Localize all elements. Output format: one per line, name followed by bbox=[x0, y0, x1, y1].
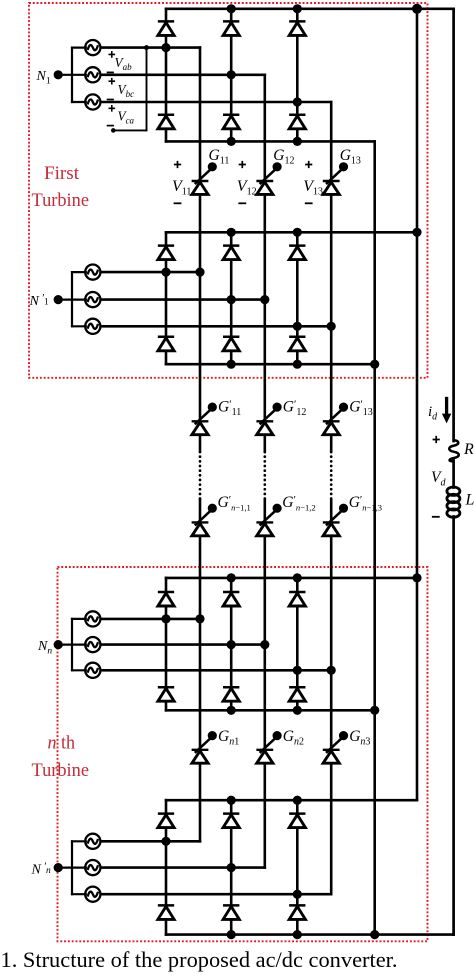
thyristor G'n-1,2 bbox=[257, 504, 282, 536]
label Vca bbox=[109, 105, 116, 112]
node: bridge Bn phase 1 junction bbox=[161, 837, 170, 846]
wire: stub to source Vc1 bbox=[72, 101, 86, 103]
AC source Vc1p bbox=[85, 319, 100, 334]
diode bridge Bn lower leg 3 bbox=[289, 905, 305, 919]
diode bridge An lower leg 3 bbox=[289, 687, 305, 701]
diode bridge Bn upper leg 1 bbox=[158, 814, 174, 828]
inductor L bbox=[447, 487, 460, 495]
wire: bridge An leg 2 bbox=[230, 578, 233, 592]
thyristor G'n-1,1 bbox=[192, 504, 217, 536]
wire: bridge A1 leg 2 bbox=[230, 9, 233, 22]
thyristor G'11 bbox=[192, 403, 217, 435]
node: bridge A1 bus junctions bbox=[227, 4, 236, 13]
thyristor V11 bbox=[192, 162, 217, 194]
wire: stub to source Vb1p bbox=[72, 299, 86, 301]
node: bridge B1 phase 3 junction bbox=[293, 322, 302, 331]
wire: bridge B1 leg 2 bbox=[230, 232, 233, 245]
wire: bridge An phase row 3 bbox=[100, 669, 331, 672]
node: bridge A1 phase 2 junction bbox=[227, 70, 236, 79]
svg-text:First: First bbox=[44, 163, 80, 184]
diode bridge A1 upper leg 1 bbox=[158, 21, 174, 35]
wire: right outer load rail upper bbox=[452, 9, 455, 441]
wire: stub to source Van bbox=[72, 618, 86, 620]
AC source Van bbox=[85, 611, 100, 626]
wire: bridge Bn left bus bbox=[71, 841, 73, 894]
thyristor V13 bbox=[323, 162, 348, 194]
diode bridge A1 upper leg 3 bbox=[289, 21, 305, 35]
wire: bridge Bn bottom bus bbox=[166, 933, 454, 936]
label Vab bbox=[109, 51, 116, 58]
wire: bridge B1 top bus bbox=[166, 231, 417, 234]
wire: thyristor column 3 segments bbox=[330, 102, 333, 181]
label V12 plus bbox=[239, 161, 246, 168]
node: bridge B1 top bus to inner rail bbox=[412, 228, 421, 237]
wire: bridge A1 phase row 3 bbox=[100, 101, 331, 104]
node: bridge Bn phase 3 junction bbox=[293, 890, 302, 899]
wire: bridge An phase row 2 bbox=[100, 643, 265, 646]
AC source Vanp bbox=[85, 834, 100, 849]
node: bridge Bn bus junctions bbox=[227, 796, 236, 805]
node: bridge An phase 2 junction bbox=[227, 640, 236, 649]
node: bridge An phase 3 junction bbox=[293, 666, 302, 675]
diode bridge A1 lower leg 3 bbox=[289, 115, 305, 129]
label V13 plus bbox=[305, 161, 312, 168]
label V11 minus bbox=[174, 202, 182, 204]
label V11 plus bbox=[174, 161, 181, 168]
wire: bridge A1 phase row 1 bbox=[100, 46, 200, 49]
wire: series vertical link bbox=[373, 141, 376, 934]
node: sense tap on phase a bbox=[144, 45, 149, 50]
node: bridge Bn phase 2 junction bbox=[227, 863, 236, 872]
wire: right outer load rail middle bbox=[452, 461, 455, 488]
wire: right inner rail bbox=[416, 9, 419, 800]
diode bridge An upper leg 2 bbox=[223, 592, 239, 606]
wire: stub to source Vb1 bbox=[72, 74, 86, 76]
wire: dotted column 3 bbox=[330, 452, 333, 499]
wire: Vca sense line bbox=[146, 48, 148, 131]
wire: stub to source Vbn bbox=[72, 643, 86, 645]
AC source Vcnp bbox=[85, 887, 100, 902]
wire: bridge B1 bottom bus bbox=[166, 363, 375, 366]
node N1 bbox=[58, 74, 72, 76]
AC source Va1 bbox=[85, 40, 100, 55]
First Turbine dotted box bbox=[29, 3, 428, 378]
thyristor V12 bbox=[257, 162, 282, 194]
current arrow id bbox=[445, 399, 448, 415]
wire: dotted column 2 bbox=[263, 452, 266, 499]
node: bridge B1 phase 1 junction bbox=[161, 268, 170, 277]
svg-text:R: R bbox=[463, 441, 474, 458]
diode bridge A1 upper leg 2 bbox=[223, 21, 239, 35]
AC source Vbnp bbox=[85, 860, 100, 875]
node: bridge A1 phase 1 junction bbox=[161, 43, 170, 52]
AC source Vc1 bbox=[85, 94, 100, 109]
diode bridge An lower leg 2 bbox=[223, 687, 239, 701]
wire: bridge B1 left bus bbox=[71, 272, 73, 326]
diode bridge Bn upper leg 3 bbox=[289, 814, 305, 828]
wire: bridge An phase row 1 bbox=[100, 618, 200, 621]
svg-text:Turbine: Turbine bbox=[32, 190, 90, 211]
wire: bridge Bn phase row 1 bbox=[100, 840, 200, 843]
svg-text:n th: n th bbox=[48, 733, 76, 754]
diode bridge B1 upper leg 2 bbox=[223, 246, 239, 260]
node: bridge B1 phase 2 junction bbox=[227, 295, 236, 304]
wire: bridge Bn leg 2 bbox=[230, 800, 233, 813]
node N'n bbox=[58, 866, 72, 868]
AC source Vb1 bbox=[85, 67, 100, 82]
thyristor Gn3 bbox=[323, 731, 348, 763]
diode bridge Bn upper leg 2 bbox=[223, 814, 239, 828]
diode bridge An lower leg 1 bbox=[158, 687, 174, 701]
wire: bridge A1 bottom bus bbox=[166, 140, 375, 143]
label V12 minus bbox=[238, 202, 246, 204]
wire: thyristor column 1 segments bbox=[199, 48, 202, 181]
diode bridge B1 lower leg 3 bbox=[289, 337, 305, 351]
wire: stub to source Vbnp bbox=[72, 866, 86, 868]
wire: bridge B1 phase row 2 bbox=[100, 298, 265, 301]
wire: thyristor column 2 segments bbox=[263, 75, 266, 181]
diode bridge An upper leg 1 bbox=[158, 592, 174, 606]
node: top bus to inner rail bbox=[412, 4, 422, 14]
diode bridge A1 lower leg 2 bbox=[223, 115, 239, 129]
wire: bridge B1 phase row 1 bbox=[100, 271, 200, 274]
wire: bridge An leg 3 bbox=[296, 578, 299, 592]
svg-text:1. Structure of the proposed a: 1. Structure of the proposed ac/dc conve… bbox=[1, 947, 398, 972]
wire: stub to source Vcn bbox=[72, 669, 86, 671]
diode bridge B1 lower leg 1 bbox=[158, 337, 174, 351]
wire: bridge A1 leg 1 bbox=[165, 9, 168, 22]
wire: stub to source Vanp bbox=[72, 840, 86, 842]
wire: bridge Bn phase row 3 bbox=[100, 893, 331, 896]
wire: right outer load rail lower bbox=[452, 517, 455, 935]
wire: bridge A1 phase row 2 bbox=[100, 74, 265, 77]
label Vbc bbox=[109, 78, 116, 85]
wire: bridge An bottom bus bbox=[166, 709, 375, 712]
node: series link to bridge Bn bottom bus bbox=[370, 930, 379, 939]
wire: bridge Bn top bus bbox=[166, 799, 417, 802]
diode bridge B1 lower leg 2 bbox=[223, 337, 239, 351]
wire: stub to source Vc1p bbox=[72, 325, 86, 327]
wire: bridge An leg 1 bbox=[165, 578, 168, 592]
diode bridge B1 upper leg 1 bbox=[158, 246, 174, 260]
wire: stub to source Vcnp bbox=[72, 893, 86, 895]
diode bridge B1 upper leg 3 bbox=[289, 246, 305, 260]
node: bridge A1 phase 3 junction bbox=[293, 97, 302, 106]
resistor R bbox=[449, 440, 459, 461]
nth Turbine dotted box bbox=[58, 567, 428, 941]
wire: bridge B1 phase row 3 bbox=[100, 325, 331, 328]
diode bridge Bn lower leg 2 bbox=[223, 905, 239, 919]
label plus load bbox=[433, 436, 440, 443]
node: bridge B1 bus junctions bbox=[227, 228, 236, 237]
diode bridge Bn lower leg 1 bbox=[158, 905, 174, 919]
node: bridge An phase 1 junction bbox=[161, 614, 170, 623]
wire: dotted column 1 bbox=[199, 452, 202, 499]
thyristor G'13 bbox=[323, 403, 348, 435]
wire: bridge Bn leg 1 bbox=[165, 800, 168, 813]
wire: bridge Bn phase row 2 bbox=[100, 866, 265, 869]
wire: bridge B1 leg 3 bbox=[296, 232, 299, 245]
thyristor Gn1 bbox=[192, 731, 217, 763]
wire: stub to source Va1p bbox=[72, 271, 86, 273]
svg-text:Turbine: Turbine bbox=[32, 760, 90, 781]
node: bridge An top bus to inner rail bbox=[412, 573, 421, 582]
diode bridge A1 lower leg 1 bbox=[158, 115, 174, 129]
wire: bridge An left bus bbox=[71, 619, 73, 670]
thyristor Gn2 bbox=[257, 731, 282, 763]
node: series link to bridge B1 bottom bus bbox=[370, 360, 379, 369]
thyristor G'12 bbox=[257, 403, 282, 435]
label V13 minus bbox=[305, 202, 313, 204]
diode bridge An upper leg 3 bbox=[289, 592, 305, 606]
svg-text:L: L bbox=[465, 492, 474, 509]
wire: bridge A1 top bus bbox=[166, 8, 454, 11]
wire: bridge A1 left bus bbox=[71, 48, 73, 102]
node: sense line end bbox=[111, 128, 116, 133]
node: series link to bridge An bottom bus bbox=[370, 706, 379, 715]
AC source Vb1p bbox=[85, 292, 100, 307]
wire: bridge Bn leg 3 bbox=[296, 800, 299, 813]
thyristor G'n-1,3 bbox=[323, 504, 348, 536]
wire: stub to source Va1 bbox=[72, 46, 86, 48]
wire: bridge A1 leg 3 bbox=[296, 9, 299, 22]
wire: bridge An top bus bbox=[166, 577, 417, 580]
wire: bridge B1 leg 1 bbox=[165, 232, 168, 245]
AC source Vbn bbox=[85, 637, 100, 652]
node N'1 bbox=[58, 299, 72, 301]
node Nn bbox=[58, 643, 72, 645]
node: bridge An bus junctions bbox=[227, 573, 236, 582]
AC source Vcn bbox=[85, 663, 100, 678]
AC source Va1p bbox=[85, 265, 100, 280]
label minus load bbox=[432, 516, 440, 518]
